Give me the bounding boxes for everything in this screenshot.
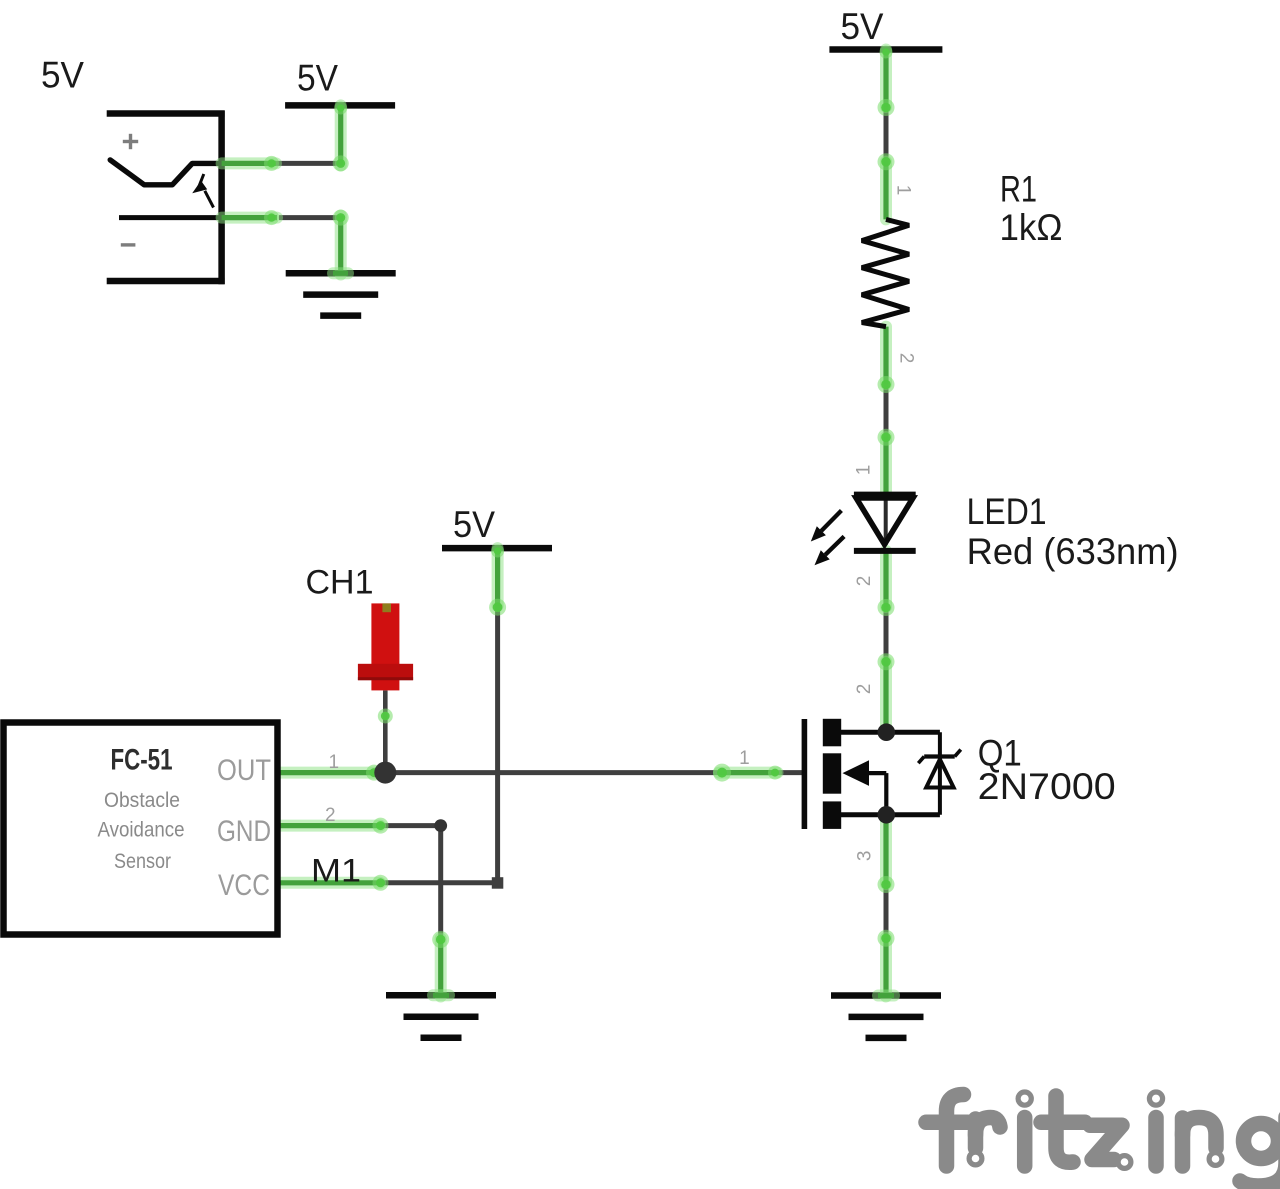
svg-text:1: 1 [893, 185, 914, 196]
svg-text:Obstacle: Obstacle [104, 788, 180, 812]
svg-text:1: 1 [329, 752, 340, 773]
svg-text:2: 2 [325, 805, 336, 826]
svg-text:2N7000: 2N7000 [978, 766, 1116, 807]
svg-text:2: 2 [896, 353, 917, 364]
svg-text:5V: 5V [841, 6, 884, 47]
svg-text:Sensor: Sensor [114, 849, 171, 873]
svg-text:5V: 5V [41, 55, 84, 96]
svg-text:VCC: VCC [218, 869, 270, 902]
svg-text:Avoidance: Avoidance [98, 817, 185, 841]
svg-text:2: 2 [854, 684, 875, 695]
svg-text:GND: GND [217, 815, 271, 848]
svg-text:1kΩ: 1kΩ [1000, 207, 1063, 248]
svg-text:R1: R1 [1000, 169, 1037, 210]
svg-text:OUT: OUT [217, 754, 271, 787]
svg-text:LED1: LED1 [967, 491, 1047, 532]
svg-text:FC-51: FC-51 [111, 743, 173, 776]
svg-text:Red (633nm): Red (633nm) [967, 531, 1179, 572]
svg-text:5V: 5V [453, 504, 495, 545]
svg-text:5V: 5V [297, 57, 338, 98]
svg-text:CH1: CH1 [306, 564, 374, 602]
svg-text:M1: M1 [311, 852, 361, 888]
svg-text:1: 1 [739, 748, 750, 769]
svg-text:1: 1 [854, 465, 875, 476]
svg-text:3: 3 [854, 851, 875, 862]
svg-text:2: 2 [854, 576, 875, 587]
